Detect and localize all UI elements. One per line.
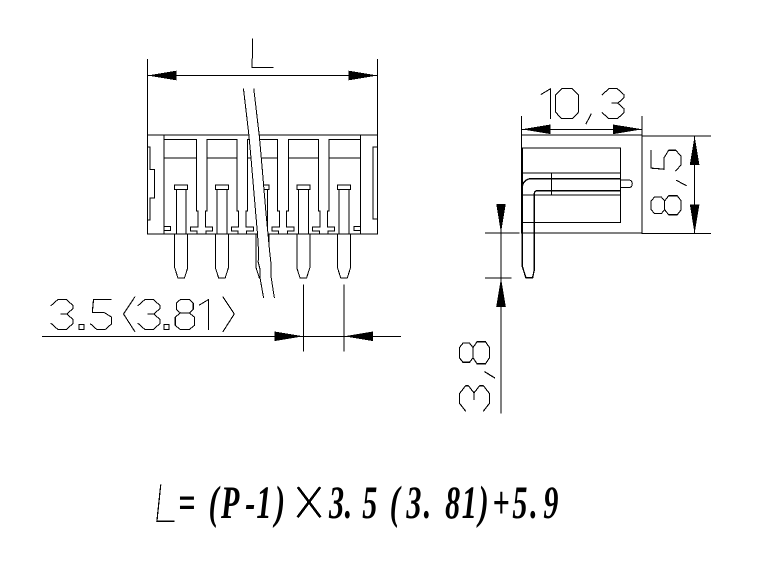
inner cavity outline (side view) [522, 148, 620, 223]
label 3.5(3.81) pitch value [51, 297, 234, 332]
left keying notch profile [147, 147, 154, 220]
label 3,8 pin length value (rotated) [460, 342, 495, 411]
divider 3 left foot [272, 211, 279, 234]
pin 5 solder cap [338, 185, 351, 190]
wire: dim 8,5 dimension line [694, 136, 696, 234]
wire: pin 3 right side inside housing [267, 190, 269, 235]
wire: pitch dim extension line (pin 5 center) [343, 285, 345, 351]
pin contact tip protrusion [621, 180, 633, 187]
label 8,5 height value (rotated) [651, 150, 686, 215]
pin 4 below housing with tapered tip [297, 234, 310, 278]
wire: dim 3,8 top extension line [485, 232, 519, 234]
pitch dim left arrowhead [274, 332, 303, 342]
dim 8,5 bottom arrowhead [690, 204, 700, 233]
pitch dim right arrowhead [344, 332, 373, 342]
wire: pitch dim extension line (pin 4 center) [302, 285, 304, 351]
pin 1 below housing with tapered tip [175, 234, 188, 278]
wire: slot 3 top edge [248, 138, 278, 140]
pin 2 solder cap [215, 185, 228, 190]
wire: slot 4 floor edge [288, 157, 318, 159]
wire: left inner wall [163, 135, 165, 234]
pin 2 below housing with tapered tip [215, 234, 228, 278]
wire: cavity shelf lower line [522, 194, 620, 196]
dim L right arrowhead [349, 71, 378, 81]
right keying notch profile [373, 147, 378, 219]
divider 3 right foot [287, 211, 294, 234]
wire: divider 2 left side [236, 139, 238, 211]
wire: slot 5 top edge [329, 138, 360, 140]
label 10,3 width value [541, 89, 624, 124]
dim 8,5 top arrowhead [690, 136, 700, 165]
pin 4 solder cap [297, 185, 310, 190]
wire: pin 4 right side inside housing [307, 190, 309, 235]
divider 1 right foot [205, 211, 212, 234]
wire: slot 2 floor edge [207, 157, 237, 159]
connector housing outline (front view) [147, 135, 377, 234]
divider 4 left foot [313, 211, 320, 234]
svg-text:3.5(3.81)+5.9: 3.5(3.81)+5.9 [328, 477, 558, 529]
divider 2 left foot [231, 211, 238, 234]
pin 1 solder cap [175, 185, 188, 190]
wire: pin 5 right side inside housing [348, 190, 350, 235]
wire: dim L dimension line [147, 75, 377, 77]
right wall bottom tab [354, 227, 360, 231]
wire: pin 5 left side inside housing [338, 190, 340, 235]
break gap (white-out between break lines) [244, 89, 275, 298]
formula text =(P-1) [178, 477, 285, 529]
break line (right) [254, 89, 274, 298]
wire: divider 4 left side [317, 139, 319, 211]
wire: pin 3 left side inside housing [257, 190, 259, 235]
wire: slot 5 floor edge [329, 157, 360, 159]
label L (dimension text) [252, 39, 273, 68]
dim 10,3 left arrowhead [522, 125, 551, 135]
pin 3 below housing with tapered tip [256, 234, 269, 278]
wire: pin 1 right side inside housing [185, 190, 187, 235]
dim L left arrowhead [147, 71, 176, 81]
wire: pin 2 right side inside housing [226, 190, 228, 235]
wire: dim 3,8 bottom extension line [485, 277, 511, 279]
divider 2 right foot [246, 211, 253, 234]
wire: right inner wall [359, 135, 361, 234]
wire: dim 10,3 right extension line [641, 117, 643, 135]
wire: divider 1 left side [195, 139, 197, 211]
wire: slot 3 floor edge [248, 157, 278, 159]
divider 1 left foot [191, 211, 198, 234]
wire: dim 10,3 dimension line [522, 128, 643, 130]
wire: pitch dimension leader line [42, 335, 400, 337]
formula L character (stick font) [157, 485, 174, 521]
pin 3 solder cap [256, 185, 269, 190]
wire: slot 4 top edge [288, 138, 318, 140]
wire: dim L right extension line [377, 59, 379, 135]
wire: divider 3 left side [277, 139, 279, 211]
wire: dim 10,3 left extension line [521, 117, 523, 135]
wire: dim 8,5 top extension line [642, 135, 710, 137]
wire: divider 2 right side [247, 139, 249, 211]
dim 10,3 right arrowhead [613, 125, 642, 135]
pin 5 below housing with tapered tip [338, 234, 351, 278]
break line (left) [244, 89, 264, 298]
formula text 3.5(3.81)+5.9 [328, 477, 558, 529]
svg-text:=(P-1): =(P-1) [178, 477, 285, 529]
wire: divider 4 right side [328, 139, 330, 211]
wire: cavity shelf upper line [522, 172, 620, 174]
wire: pin 1 left side inside housing [175, 190, 177, 235]
wire: divider 1 right side [206, 139, 208, 211]
wire: slot 2 top edge [207, 138, 237, 140]
wire: pin 2 left side inside housing [216, 190, 218, 235]
formula multiplication cross [298, 488, 319, 516]
divider 4 right foot [327, 211, 334, 234]
wire: dim L left extension line [146, 59, 148, 135]
housing outline (side view) [522, 135, 643, 233]
wire: dim 3,8 dimension line [500, 205, 502, 413]
wire: contact box edge [551, 173, 553, 195]
wire: divider 3 right side [287, 139, 289, 211]
wire: slot 1 top edge [164, 138, 196, 140]
dim 3,8 upper arrowhead (pointing down) [496, 204, 506, 233]
wire: pin 4 left side inside housing [297, 190, 299, 235]
wire: dim 8,5 bottom extension line [642, 232, 710, 234]
right-angle solder pin (side view) [522, 179, 620, 278]
dim 3,8 lower arrowhead (pointing up) [496, 278, 506, 307]
left wall bottom tab [164, 227, 170, 231]
wire: slot 1 floor edge [164, 157, 196, 159]
